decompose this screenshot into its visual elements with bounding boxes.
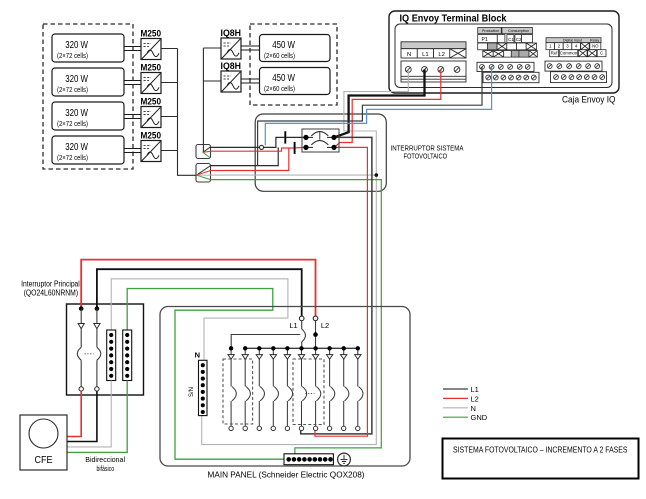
svg-text:C: C (600, 51, 603, 56)
svg-text:(2×72 cells): (2×72 cells) (57, 87, 88, 94)
svg-text:Digital Input: Digital Input (563, 39, 582, 43)
svg-text:Relay: Relay (590, 39, 599, 43)
svg-text:Caja Envoy IQ: Caja Envoy IQ (562, 94, 616, 105)
svg-text:(2×60 cells): (2×60 cells) (264, 86, 295, 93)
svg-text:L2: L2 (438, 52, 445, 58)
svg-text:IQ Envoy Terminal Block: IQ Envoy Terminal Block (400, 14, 507, 25)
svg-text:L1: L1 (289, 321, 297, 330)
svg-text:L2: L2 (471, 394, 479, 403)
svg-text:FOTOVOLTAICO: FOTOVOLTAICO (404, 152, 448, 161)
svg-text:M250: M250 (141, 130, 162, 141)
svg-text:N: N (407, 52, 411, 58)
svg-text:320 W: 320 W (65, 40, 88, 51)
svg-text:CFE: CFE (35, 454, 53, 466)
svg-text:Consumption: Consumption (508, 29, 529, 33)
svg-text:M250: M250 (141, 28, 162, 39)
svg-text:320 W: 320 W (65, 142, 88, 153)
svg-text:C1: C1 (508, 37, 514, 42)
svg-text:IQ8H: IQ8H (221, 27, 242, 38)
svg-text:M250: M250 (141, 62, 162, 73)
svg-text:SISTEMA FOTOVOLTAICO – INCREME: SISTEMA FOTOVOLTAICO – INCREMENTO A 2 FA… (453, 445, 628, 455)
svg-text:M250: M250 (141, 96, 162, 107)
svg-text:N: N (471, 404, 476, 413)
svg-text:Common: Common (560, 51, 578, 56)
svg-text:320 W: 320 W (65, 108, 88, 119)
svg-text:GND: GND (471, 413, 488, 422)
svg-text:(QO24L60NRNM): (QO24L60NRNM) (24, 288, 79, 297)
svg-text:320 W: 320 W (65, 74, 88, 85)
svg-text:Interruptor Principal: Interruptor Principal (21, 280, 80, 289)
svg-text:(2×72 cells): (2×72 cells) (57, 155, 88, 162)
svg-text:Bidireccional: Bidireccional (85, 455, 125, 464)
svg-text:IQ8H: IQ8H (221, 60, 242, 71)
svg-text:S/N: S/N (189, 387, 195, 397)
svg-text:450 W: 450 W (272, 40, 295, 51)
svg-text:N: N (195, 350, 200, 359)
svg-text:L2: L2 (321, 321, 329, 330)
svg-text:450 W: 450 W (272, 73, 295, 84)
svg-text:L1: L1 (471, 385, 479, 394)
svg-text:Production: Production (482, 29, 499, 33)
svg-text:L1: L1 (422, 52, 429, 58)
svg-text:NO: NO (592, 44, 599, 49)
svg-text:(2×72 cells): (2×72 cells) (57, 121, 88, 128)
svg-text:bifásico: bifásico (97, 464, 115, 473)
svg-text:Ref: Ref (551, 51, 558, 56)
svg-text:(2×72 cells): (2×72 cells) (57, 53, 88, 60)
svg-text:MAIN PANEL (Schneider Electric: MAIN PANEL (Schneider Electric QOX208) (208, 470, 365, 480)
svg-text:(2×60 cells): (2×60 cells) (264, 53, 295, 60)
svg-text:C2: C2 (516, 37, 522, 42)
svg-text:P1: P1 (482, 37, 488, 43)
